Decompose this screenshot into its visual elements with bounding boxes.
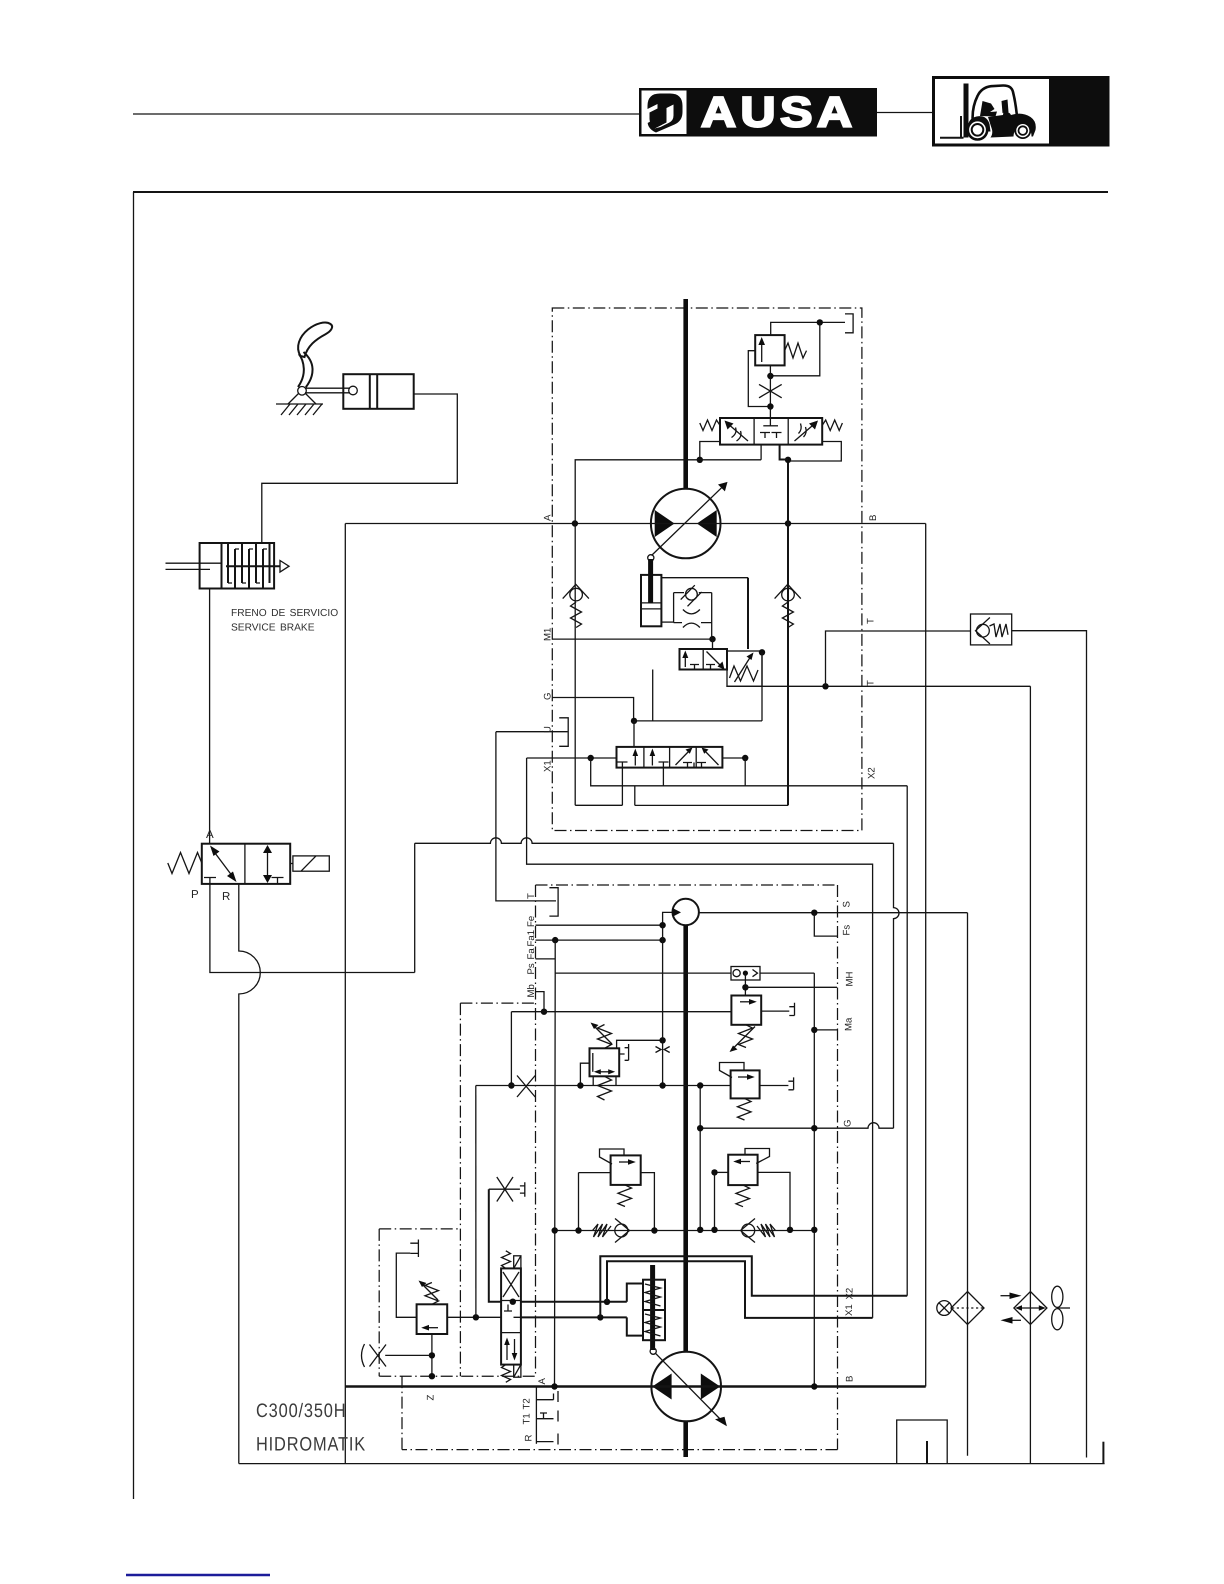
- svg-text:AUSA: AUSA: [701, 90, 857, 137]
- right cell throttle arrow: [795, 423, 816, 441]
- left boost check valve: [593, 1224, 612, 1237]
- pump servo pivot: [650, 1348, 656, 1354]
- pump variable arrow: [655, 1353, 724, 1423]
- A-B thick supply line: [345, 1385, 925, 1388]
- cell2 arrow: [651, 752, 653, 766]
- A side check valve: [570, 588, 583, 601]
- tank right end tick: [1102, 1442, 1104, 1464]
- relief A2 left port: [579, 1172, 611, 1174]
- header rule left of AUSA logo: [133, 113, 639, 115]
- relief A left port: [715, 1171, 729, 1173]
- relief spring right: [785, 343, 807, 358]
- node right pilot: [785, 457, 791, 463]
- node pilot junction: [767, 373, 773, 379]
- svg-text:Fa: Fa: [526, 948, 537, 960]
- wire: P riser: [414, 843, 416, 972]
- motor casing dash-dot box: [552, 308, 862, 831]
- needle valve X: [497, 1177, 513, 1202]
- node rail dots: [552, 1227, 558, 1233]
- DA top spring with arrow: [598, 1025, 612, 1049]
- wire: P to pump G with hops: [415, 838, 894, 844]
- relief bypass branch: [748, 351, 770, 407]
- left cell throttle arrow: [727, 423, 748, 441]
- node Z pilot rail: [473, 1314, 479, 1320]
- cell1 arrow: [634, 752, 636, 766]
- rail orifice marks: [656, 1047, 670, 1053]
- cell3 diagonal arrow: [676, 750, 691, 765]
- bottom spring: [502, 1365, 511, 1383]
- G line: [700, 1123, 893, 1129]
- boost relief spring: [739, 1025, 753, 1048]
- top relief valve: [755, 335, 784, 365]
- node B branch: [785, 520, 791, 526]
- B side check valve: [782, 588, 795, 601]
- oil cooler diamond: [1014, 1292, 1047, 1325]
- G collector line: [634, 720, 762, 722]
- wire: P/G drop with hop over S: [894, 843, 900, 1128]
- svg-text:X2: X2: [867, 767, 878, 779]
- svg-text:FRENO DE SERVICIO: FRENO DE SERVICIO: [231, 608, 338, 619]
- boost relief valve: [731, 996, 761, 1025]
- needle valve line: [489, 1188, 520, 1190]
- svg-text:Ma: Ma: [844, 1017, 855, 1031]
- mast: [964, 84, 969, 138]
- G to selector top: [633, 721, 635, 747]
- motor flow triangle left: [655, 510, 675, 537]
- needle drain bracket: [520, 1182, 525, 1196]
- plugged orifice X: [517, 1076, 535, 1098]
- crossover drop: [634, 786, 636, 806]
- selector cell port marks: [690, 665, 715, 670]
- T return line upper: [862, 630, 971, 632]
- left pilot of flushing valve: [700, 442, 720, 460]
- boost relief drain: [761, 1010, 789, 1012]
- boost suction arrow: [663, 912, 674, 925]
- A side check relief line: [574, 524, 576, 806]
- boost feed rail: [555, 1230, 815, 1232]
- Z relief bottom to case: [431, 1334, 433, 1376]
- selector drain stub: [652, 670, 654, 721]
- flushing valve pilot rail to A: [575, 460, 761, 524]
- ground line: [276, 403, 323, 405]
- cab outline: [973, 85, 1017, 133]
- check to MH riser line: [760, 972, 814, 974]
- Ps line to check: [555, 972, 731, 974]
- node DA pilot: [659, 1037, 665, 1043]
- Ps boost rail vertical: [554, 940, 557, 1386]
- case flow orifice: [385, 1354, 432, 1356]
- relief B drain: [760, 1085, 789, 1087]
- node bypass right: [697, 1082, 703, 1088]
- node valve right: [742, 755, 748, 761]
- Fa1 feed line: [536, 939, 663, 941]
- selector valve 2-pos: [680, 649, 728, 670]
- svg-text:T: T: [866, 618, 877, 624]
- svg-text:X1: X1: [543, 760, 554, 772]
- pump flow triangle left: [652, 1374, 671, 1400]
- AUSA emblem: [648, 94, 683, 133]
- fork: [940, 116, 964, 138]
- pump casing dash-dot outline: [536, 884, 838, 886]
- svg-text:B: B: [845, 1376, 856, 1382]
- cell4 diagonal arrow: [704, 750, 719, 765]
- top solenoid: [514, 1256, 521, 1269]
- DA internal double arrow: [597, 1071, 612, 1073]
- relief A box: [728, 1155, 757, 1185]
- B-side lower rail: [635, 804, 788, 806]
- shuttle check+orifice box: [674, 593, 712, 640]
- bottom cell arrows: [506, 1341, 508, 1360]
- servo cylinder: [641, 575, 661, 626]
- AUSA wordmark: [701, 90, 857, 137]
- right cell blocked port: [272, 878, 284, 884]
- cell1 stub: [621, 768, 623, 806]
- header rule between logo and forklift badge: [877, 112, 932, 114]
- tank symbol top right: [845, 314, 853, 333]
- Mb drop to bypass rail: [510, 1012, 512, 1086]
- top spring: [502, 1251, 511, 1269]
- right boost check valve: [742, 1224, 755, 1237]
- cooler internal arrows: [1018, 1307, 1043, 1309]
- Fe-orifice rail: [662, 925, 664, 1085]
- relief A pilot flag: [745, 1149, 770, 1164]
- flushing valve springs: [700, 420, 720, 431]
- X2 riser handled in leftlines: [906, 786, 908, 1296]
- node Ma: [811, 1027, 817, 1033]
- MH pilot drop: [744, 973, 746, 995]
- Fs gauge stub: [814, 913, 837, 936]
- node G left: [697, 1125, 703, 1131]
- wire: motor X1 to pump X1: [527, 758, 873, 1318]
- node G branch: [631, 718, 637, 724]
- footer blue line: [126, 1574, 270, 1576]
- wire: R port down with hop over P wire: [239, 884, 260, 1464]
- servo top feed: [661, 577, 748, 579]
- node rail bypass: [659, 1082, 665, 1088]
- servo bottom to box: [661, 621, 673, 623]
- brake release shaft with arrow: [226, 565, 280, 567]
- return spring: [168, 853, 202, 874]
- ground hatching: [281, 404, 322, 415]
- forklift badge frame: [934, 78, 1109, 146]
- pump drive shaft: [683, 925, 688, 1352]
- node Fe: [659, 922, 665, 928]
- node Mb: [541, 1009, 547, 1015]
- relief A2 right port: [641, 1173, 655, 1231]
- svg-text:MH: MH: [845, 972, 856, 987]
- boost check valve box: [731, 967, 760, 981]
- Fe feed line: [536, 924, 663, 926]
- valve right port line: [722, 757, 745, 759]
- cell4 drop: [744, 758, 746, 786]
- relief B pilot flag: [720, 1063, 745, 1078]
- front fender: [968, 116, 990, 131]
- svg-text:Z: Z: [426, 1395, 437, 1401]
- G port rail drop: [699, 1086, 701, 1230]
- svg-text:Ps: Ps: [526, 963, 537, 974]
- relief A right port: [758, 1172, 790, 1229]
- fixed orifice X: [759, 384, 782, 397]
- brake piston wall: [221, 543, 223, 589]
- relief A spring: [736, 1185, 750, 1207]
- T return line lower: [726, 685, 1030, 687]
- node prop valve port: [510, 1299, 516, 1305]
- cell1 port mark: [618, 762, 628, 768]
- Z relief spring: [425, 1283, 439, 1305]
- svg-text:Fs: Fs: [842, 925, 853, 936]
- solenoid: [293, 856, 329, 871]
- AUSA logo block: [639, 88, 877, 137]
- node B servo branch: [597, 1314, 603, 1320]
- svg-text:X1: X1: [844, 1304, 855, 1316]
- U tank symbol: [559, 718, 568, 747]
- orifice symbol: [683, 610, 700, 628]
- DA control valve body: [590, 1048, 620, 1076]
- cell2 port mark: [659, 762, 669, 768]
- X2 collector rail: [591, 758, 908, 786]
- svg-text:R: R: [524, 1435, 535, 1442]
- svg-text:S: S: [842, 901, 853, 907]
- frame top border: [133, 191, 1108, 193]
- brake actuating rod: [166, 562, 222, 564]
- rod pin: [349, 386, 358, 395]
- tank breather notch: [897, 1420, 948, 1464]
- node M1 shuttle: [709, 636, 715, 642]
- boost pump circle: [673, 899, 699, 925]
- node Fa1 right: [659, 937, 665, 943]
- tank rail bottom: [239, 1463, 1105, 1465]
- caption model: [256, 1400, 346, 1422]
- relief B box: [731, 1070, 760, 1098]
- svg-text:A: A: [543, 514, 554, 521]
- cooler air arrows: [1001, 1295, 1013, 1297]
- T loop riser: [826, 631, 862, 686]
- pedal pivot joint: [298, 387, 307, 396]
- servo link pivot: [648, 555, 654, 561]
- svg-text:R: R: [222, 891, 230, 903]
- pilot line to flushing valve: [769, 407, 771, 426]
- node relief outlet: [817, 319, 823, 325]
- pressure pilot box with spring: [727, 651, 762, 686]
- pivot support legs: [288, 394, 316, 405]
- node bypass junction: [767, 403, 773, 409]
- needle feed drop: [489, 1189, 501, 1302]
- Fa jog stub: [536, 958, 556, 960]
- node DA left: [577, 1082, 583, 1088]
- G port line: [552, 698, 633, 721]
- mid cell marks: [504, 1305, 521, 1318]
- svg-text:C300/350H: C300/350H: [256, 1400, 346, 1422]
- U port line: [496, 731, 568, 733]
- cooler return line: [1029, 686, 1031, 1463]
- svg-text:G: G: [543, 693, 554, 700]
- master cylinder piston: [369, 374, 371, 409]
- R T1 T2 drain comb: [535, 1387, 537, 1444]
- bypass rail: [476, 1085, 731, 1087]
- X1 port line: [527, 757, 617, 759]
- seat back piece: [1002, 100, 1009, 114]
- Z relief pilot to tank: [396, 1253, 416, 1317]
- svg-text:Fa1: Fa1: [526, 930, 537, 947]
- svg-text:Fe: Fe: [526, 916, 537, 927]
- right pilot of flushing valve: [788, 442, 841, 462]
- DA left port: [580, 1063, 589, 1085]
- M1 link into selector: [712, 639, 714, 649]
- operator backrest: [980, 101, 997, 117]
- wire: motor U drain to pump T: [496, 732, 556, 901]
- brake cylinder housing: [200, 543, 275, 589]
- Ma port stub: [814, 1029, 837, 1031]
- svg-text:SERVICE BRAKE: SERVICE BRAKE: [231, 623, 315, 634]
- svg-text:HIDROMATIK: HIDROMATIK: [256, 1434, 366, 1456]
- DA drain bracket: [619, 1044, 628, 1060]
- top cell cross: [503, 1272, 519, 1297]
- M1 gauge line: [552, 638, 712, 640]
- svg-text:U: U: [543, 726, 554, 733]
- Mb port jog: [536, 992, 545, 1012]
- Z relief valve: [417, 1304, 448, 1334]
- filter suction line: [967, 913, 969, 1456]
- wire: cylinder output to brake: [262, 394, 458, 543]
- wire: P port down and across: [210, 884, 415, 973]
- T drain check valve box: [971, 614, 1012, 645]
- master cylinder body: [343, 374, 413, 409]
- servo piston rod: [648, 559, 653, 603]
- pedal push rod: [305, 387, 350, 389]
- servo piston assembly: [650, 1265, 655, 1350]
- node Fa1 left: [552, 937, 558, 943]
- flushing valve right stub: [780, 445, 788, 460]
- motor flow triangle right: [697, 510, 717, 537]
- brake disc pack fins: [228, 543, 270, 589]
- relief A2 pilot flag: [600, 1149, 625, 1164]
- pump flow triangle right: [701, 1374, 720, 1400]
- node A branch: [572, 520, 578, 526]
- rear wheel: [1014, 122, 1031, 139]
- servo bottom port: [627, 1317, 643, 1335]
- wire: A-rail left vertical: [344, 524, 346, 1464]
- body: [988, 111, 1036, 137]
- relief outlet to tank bracket: [771, 322, 845, 335]
- svg-text:T: T: [866, 680, 877, 686]
- selector right cell arrow: [707, 652, 722, 667]
- selector left cell arrow: [684, 654, 686, 667]
- node T loop: [822, 683, 828, 689]
- A-side lower rail: [575, 804, 622, 806]
- bottom solenoid: [514, 1365, 521, 1378]
- node MH: [742, 984, 748, 990]
- node G mid: [811, 1125, 817, 1131]
- suction filter diamond: [951, 1292, 984, 1325]
- tank notch tick: [926, 1441, 928, 1464]
- svg-text:T2: T2: [522, 1398, 533, 1409]
- flushing valve 3-pos body: [720, 418, 822, 445]
- relief pilot loop: [770, 322, 819, 375]
- clogging indicator: [937, 1301, 952, 1316]
- frame left border: [133, 192, 135, 1499]
- front wheel: [967, 119, 989, 141]
- servo springs: [645, 1284, 661, 1306]
- svg-text:A: A: [537, 1378, 548, 1385]
- tilted check valve: [686, 588, 698, 600]
- svg-text:X2: X2: [845, 1288, 856, 1300]
- valve body 3/2: [202, 844, 290, 884]
- node A feed: [551, 1383, 557, 1389]
- relief B spring: [738, 1098, 752, 1120]
- cell2 stub: [662, 768, 664, 786]
- motor variable arrow: [652, 488, 722, 556]
- svg-text:M1: M1: [543, 628, 554, 641]
- node S branch: [811, 910, 817, 916]
- svg-text:P: P: [191, 889, 199, 901]
- brake pedal pad: [298, 323, 332, 357]
- DA pilot to orifice rail: [617, 1040, 663, 1048]
- node left pilot: [697, 457, 703, 463]
- servo top port: [627, 1284, 643, 1302]
- node A servo branch: [604, 1299, 610, 1305]
- svg-text:B: B: [868, 515, 879, 521]
- cell4 port mark: [697, 763, 706, 768]
- cell3 port marks: [683, 763, 694, 768]
- left cell diagonal arrow A-R: [212, 849, 235, 879]
- node pilot box corner: [759, 649, 765, 655]
- svg-text:A: A: [206, 829, 214, 841]
- X1 crossover: [607, 1261, 873, 1318]
- relief A2 spring: [618, 1185, 632, 1207]
- main pump circle: [651, 1352, 721, 1422]
- motor drive shaft: [683, 299, 688, 489]
- MH port line: [745, 986, 837, 988]
- valve A to servo line: [521, 1301, 627, 1303]
- feed drop to selector: [747, 578, 749, 649]
- T drain to tank: [1012, 631, 1087, 1458]
- T port tank symbol: [549, 888, 558, 916]
- X2 crossover: [600, 1256, 907, 1317]
- pilot rail drop: [475, 1086, 477, 1318]
- cooler fan: [1052, 1286, 1063, 1307]
- B return riser: [925, 524, 927, 1387]
- B side check relief line: [787, 460, 789, 806]
- charge pressure rail: [813, 973, 815, 1386]
- svg-text:T1: T1: [522, 1413, 533, 1424]
- right cell double arrow: [267, 849, 269, 879]
- S suction line: [699, 912, 968, 914]
- svg-text:G: G: [843, 1120, 854, 1127]
- svg-text:T: T: [526, 893, 537, 899]
- orifice to relief: [769, 365, 771, 406]
- wire: brake to solenoid valve: [209, 589, 211, 844]
- Z relief out to prop valve: [447, 1316, 501, 1318]
- forklift icon: [940, 84, 1036, 141]
- Mb line: [511, 1011, 731, 1013]
- left cell blocked port P: [204, 878, 216, 884]
- DA bottom spring: [598, 1076, 612, 1100]
- A-B main line: [345, 523, 925, 525]
- svg-text:Mb: Mb: [526, 984, 537, 997]
- prop valve 4-3 body: [501, 1268, 521, 1364]
- relief A2 box left: [611, 1155, 641, 1185]
- mid cell closed port T mark: [763, 425, 778, 427]
- valve B to servo line: [521, 1316, 627, 1318]
- node B feed: [811, 1383, 817, 1389]
- node Mb bypass: [508, 1082, 514, 1088]
- directional valve 4-cell body: [617, 747, 723, 768]
- pilot box right edge drop: [761, 652, 763, 721]
- flushing valve left stub: [760, 445, 762, 460]
- DA bottom stubs: [593, 1076, 616, 1085]
- node X1 branch: [588, 755, 594, 761]
- hydraulic motor M1: [651, 489, 721, 559]
